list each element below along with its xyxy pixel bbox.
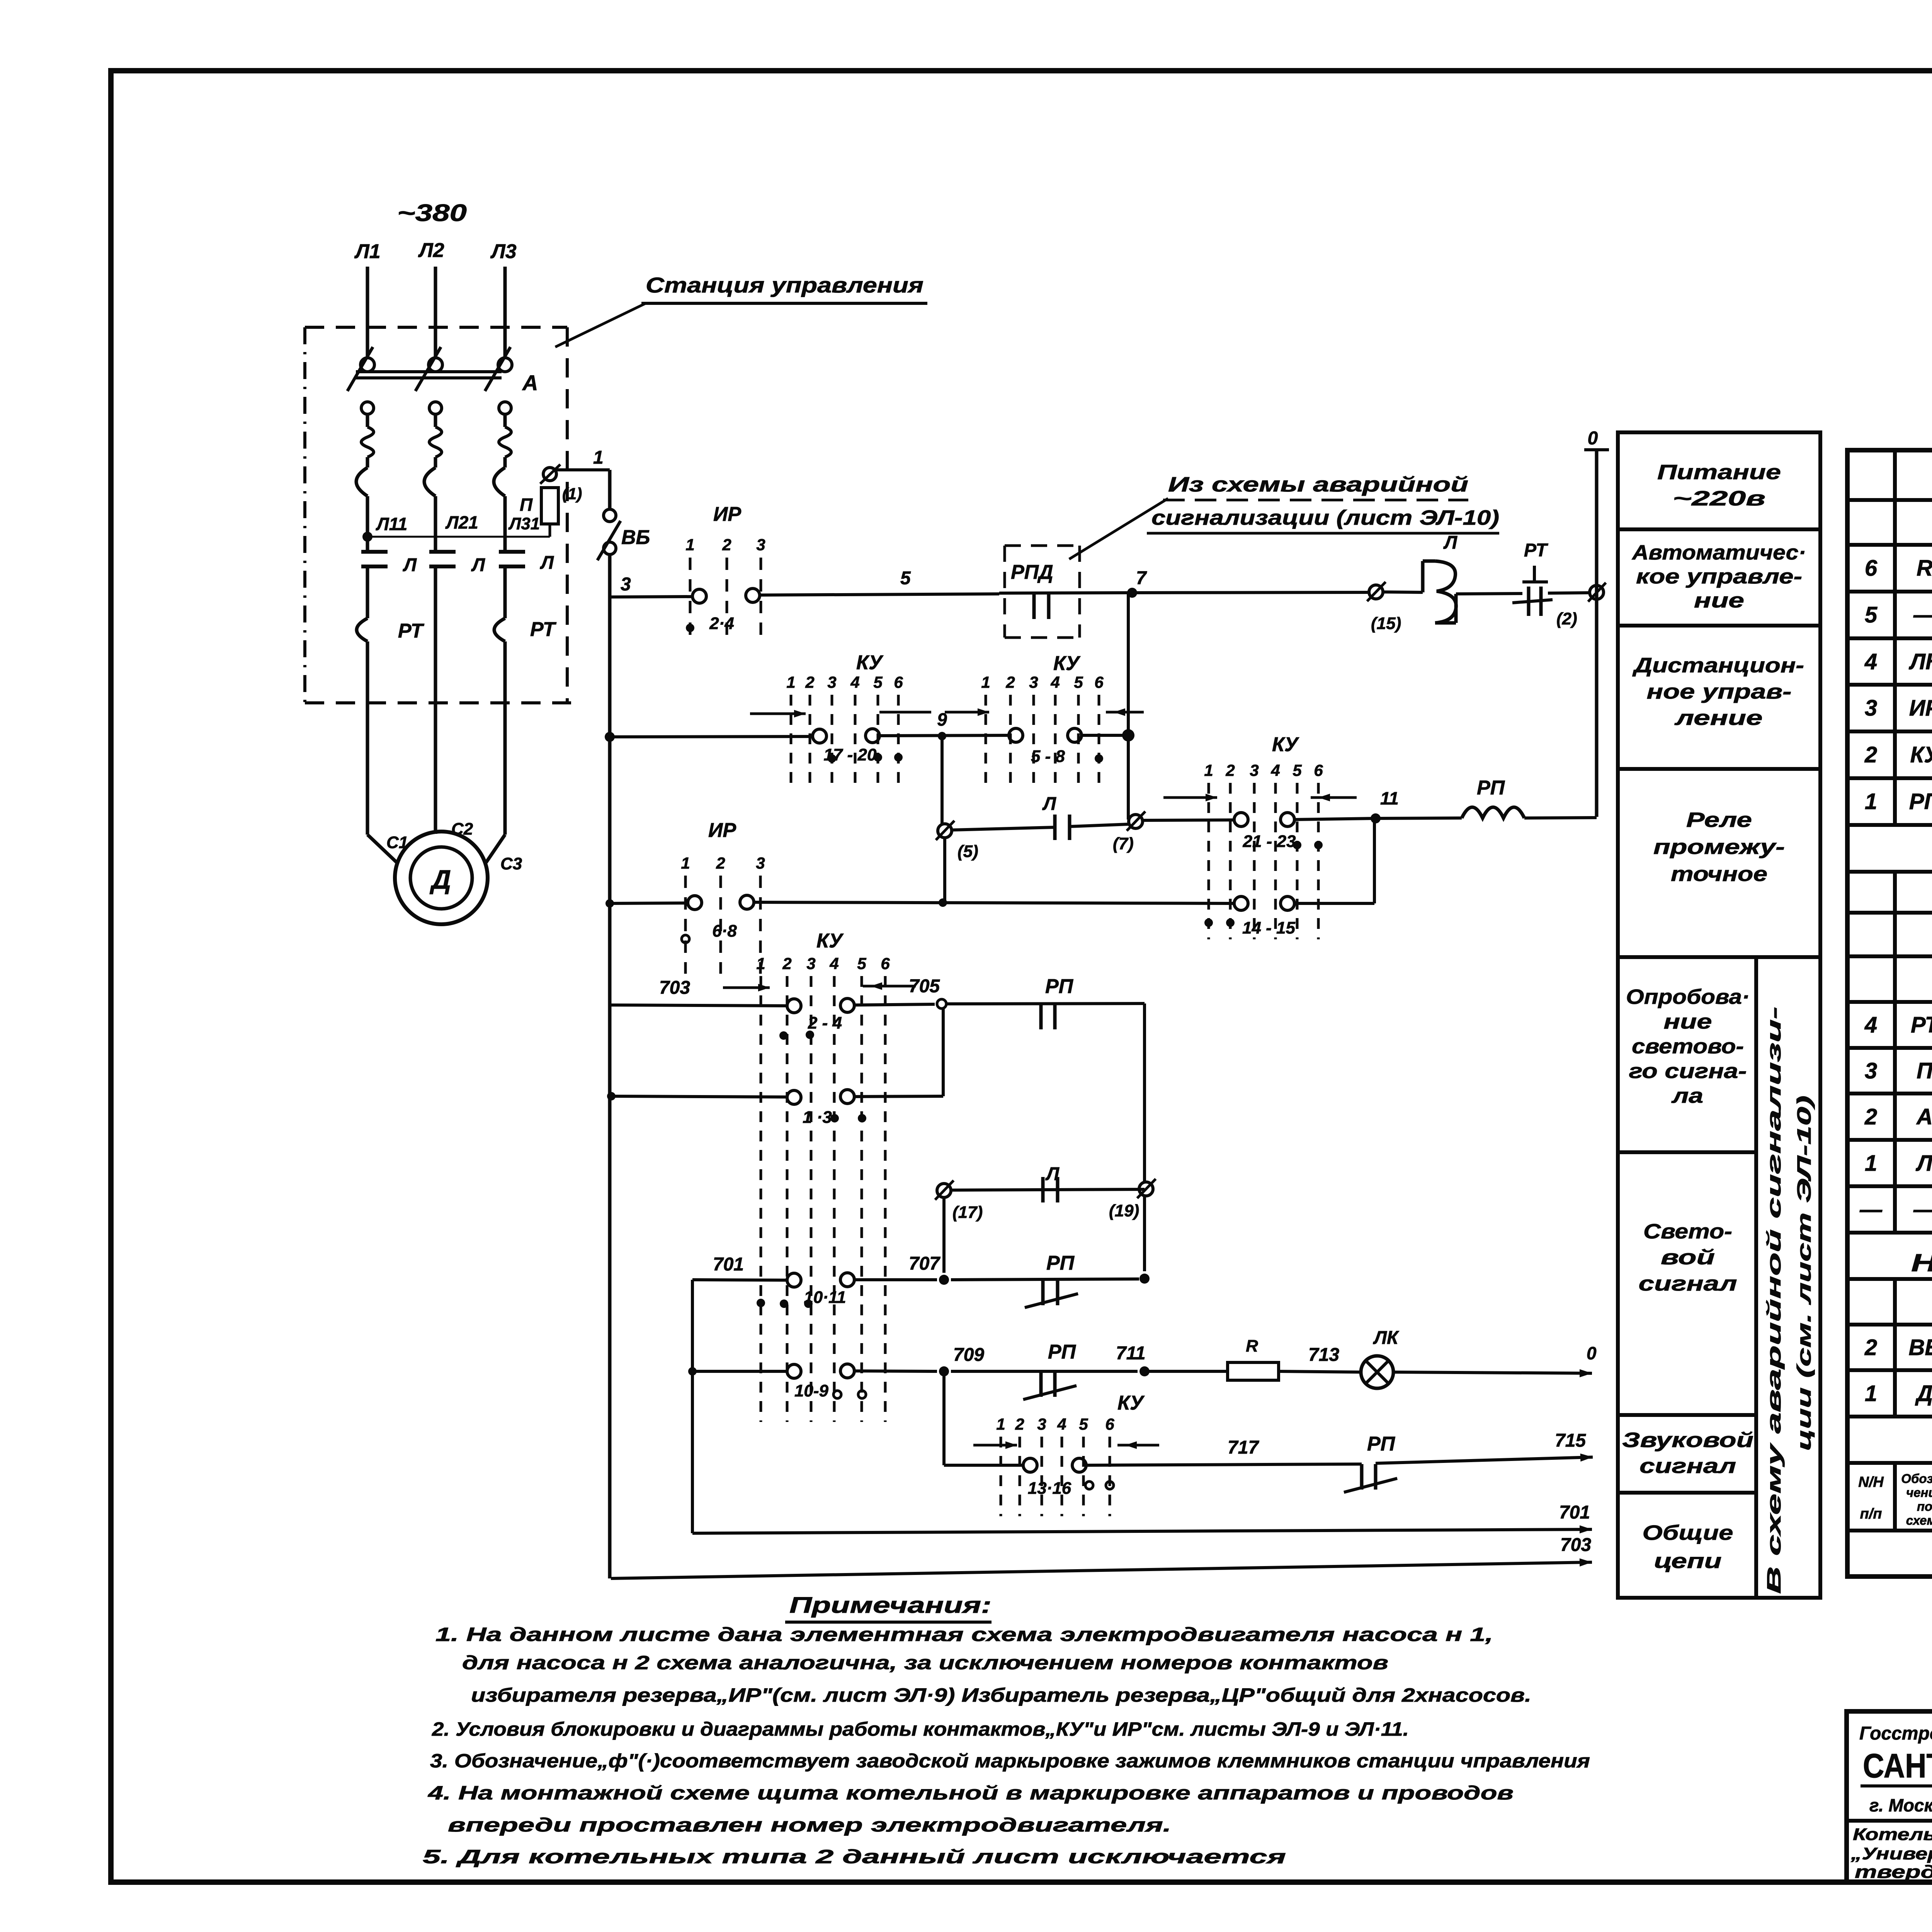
svg-text:КУ: КУ bbox=[1053, 652, 1081, 675]
svg-text:схеме: схеме bbox=[1906, 1513, 1932, 1527]
svg-text:5: 5 bbox=[1079, 1415, 1088, 1433]
svg-text:го сигна-: го сигна- bbox=[1629, 1060, 1747, 1083]
svg-text:2: 2 bbox=[782, 954, 791, 973]
svg-text:5: 5 bbox=[1865, 602, 1878, 628]
svg-text:А: А bbox=[1916, 1104, 1932, 1129]
svg-text:703: 703 bbox=[1560, 1535, 1591, 1555]
svg-text:твердом топливе: твердом топливе bbox=[1855, 1862, 1932, 1882]
svg-text:светово-: светово- bbox=[1632, 1035, 1744, 1058]
svg-text:КУ: КУ bbox=[1910, 742, 1932, 767]
svg-text:(5): (5) bbox=[957, 842, 978, 861]
svg-text:ное управ-: ное управ- bbox=[1647, 680, 1792, 703]
svg-text:Л: Л bbox=[403, 555, 417, 575]
svg-text:5 - 8: 5 - 8 bbox=[1031, 747, 1065, 766]
svg-text:Л: Л bbox=[1915, 1151, 1932, 1176]
svg-text:6: 6 bbox=[894, 673, 903, 691]
svg-text:—: — bbox=[1913, 602, 1932, 628]
svg-text:РТ: РТ bbox=[1524, 540, 1548, 561]
svg-text:2: 2 bbox=[1864, 742, 1877, 767]
svg-text:4: 4 bbox=[1864, 1012, 1877, 1037]
svg-text:по: по bbox=[1917, 1499, 1932, 1514]
svg-text:Свето-: Свето- bbox=[1643, 1220, 1732, 1243]
svg-text:2: 2 bbox=[716, 854, 725, 872]
svg-text:2: 2 bbox=[1015, 1415, 1024, 1433]
svg-text:4: 4 bbox=[829, 954, 838, 973]
svg-text:5. Для котельных типа 2 да: 5. Для котельных типа 2 данный лист искл… bbox=[423, 1846, 1286, 1867]
svg-text:4. На монтажной схеме щита: 4. На монтажной схеме щита котельной в м… bbox=[428, 1782, 1514, 1804]
svg-text:~220в: ~220в bbox=[1673, 487, 1765, 510]
svg-text:14 - 15: 14 - 15 bbox=[1242, 918, 1296, 937]
svg-text:709: 709 bbox=[953, 1345, 984, 1365]
svg-text:—: — bbox=[1913, 1197, 1932, 1222]
svg-text:САНТЕХПРОЕКТ: САНТЕХПРОЕКТ bbox=[1863, 1747, 1932, 1785]
svg-text:РП: РП bbox=[1909, 789, 1932, 814]
svg-text:1: 1 bbox=[685, 536, 694, 554]
svg-text:1: 1 bbox=[1204, 761, 1213, 779]
svg-text:(7): (7) bbox=[1113, 834, 1134, 853]
svg-text:РТ: РТ bbox=[530, 618, 557, 641]
svg-text:РТ: РТ bbox=[398, 620, 425, 642]
svg-text:1: 1 bbox=[1865, 789, 1877, 814]
svg-text:сигнализации (лист ЭЛ-10): сигнализации (лист ЭЛ-10) bbox=[1151, 506, 1499, 529]
svg-text:5: 5 bbox=[900, 568, 911, 588]
svg-text:711: 711 bbox=[1116, 1343, 1146, 1364]
svg-text:Л: Л bbox=[1042, 794, 1056, 814]
svg-text:(15): (15) bbox=[1371, 614, 1401, 633]
svg-text:11: 11 bbox=[1380, 788, 1399, 808]
svg-text:Питание: Питание bbox=[1657, 461, 1781, 484]
svg-text:3: 3 bbox=[1250, 761, 1259, 779]
svg-text:Л2: Л2 bbox=[418, 239, 444, 262]
svg-text:А: А bbox=[522, 371, 538, 395]
svg-text:3: 3 bbox=[827, 673, 836, 691]
svg-text:П: П bbox=[1917, 1058, 1932, 1083]
svg-text:3: 3 bbox=[621, 574, 631, 595]
svg-text:Л: Л bbox=[540, 553, 554, 573]
svg-text:С3: С3 bbox=[500, 854, 522, 873]
svg-text:РТ: РТ bbox=[1911, 1012, 1932, 1037]
svg-text:Л31: Л31 bbox=[508, 514, 540, 533]
svg-text:6: 6 bbox=[881, 954, 890, 973]
svg-text:1: 1 bbox=[1865, 1381, 1877, 1406]
svg-text:2. Условия блокировки и диаг: 2. Условия блокировки и диаграммы работы… bbox=[432, 1718, 1409, 1740]
svg-text:1: 1 bbox=[593, 447, 604, 468]
svg-text:сигнал: сигнал bbox=[1639, 1454, 1736, 1478]
svg-text:N/Н: N/Н bbox=[1858, 1474, 1884, 1490]
svg-text:1. На данном листе дана: 1. На данном листе дана элементная схема… bbox=[435, 1624, 1493, 1645]
svg-text:3. Обозначение„ф"(·)соответст: 3. Обозначение„ф"(·)соответствует заводс… bbox=[430, 1750, 1590, 1772]
svg-text:С2: С2 bbox=[451, 820, 473, 838]
svg-text:„Универсал- 6М” на: „Универсал- 6М” на bbox=[1850, 1844, 1932, 1863]
svg-text:РП: РП bbox=[1048, 1341, 1077, 1363]
svg-text:Станция управления: Станция управления bbox=[646, 273, 923, 297]
svg-text:1: 1 bbox=[981, 673, 990, 691]
svg-text:Обозна: Обозна bbox=[1901, 1471, 1932, 1486]
svg-text:1: 1 bbox=[786, 673, 795, 691]
svg-text:ла: ла bbox=[1671, 1084, 1703, 1107]
svg-text:707: 707 bbox=[909, 1253, 940, 1274]
svg-text:4: 4 bbox=[1057, 1415, 1066, 1433]
svg-text:R: R bbox=[1917, 556, 1932, 581]
svg-text:0: 0 bbox=[1587, 1343, 1597, 1363]
svg-text:0: 0 bbox=[1588, 428, 1598, 449]
svg-text:2: 2 bbox=[1225, 761, 1235, 779]
svg-text:3: 3 bbox=[1037, 1415, 1046, 1433]
svg-text:701: 701 bbox=[713, 1254, 744, 1275]
svg-text:3: 3 bbox=[1865, 1058, 1877, 1083]
svg-text:(19): (19) bbox=[1109, 1201, 1139, 1220]
svg-text:6: 6 bbox=[1094, 673, 1104, 691]
svg-text:2: 2 bbox=[1005, 673, 1015, 691]
svg-text:6·8: 6·8 bbox=[712, 922, 737, 940]
svg-text:10-9: 10-9 bbox=[794, 1381, 829, 1400]
svg-text:4: 4 bbox=[1864, 649, 1877, 674]
svg-text:Котельная с 4котлами: Котельная с 4котлами bbox=[1853, 1825, 1932, 1844]
svg-text:Госстрой: Госстрой bbox=[1859, 1723, 1932, 1744]
svg-text:Д: Д bbox=[1915, 1381, 1932, 1406]
svg-text:ление: ление bbox=[1674, 706, 1762, 730]
svg-text:1: 1 bbox=[756, 954, 765, 973]
svg-text:~380: ~380 bbox=[397, 200, 467, 226]
svg-text:Д: Д bbox=[430, 864, 451, 895]
svg-text:Л21: Л21 bbox=[445, 512, 478, 532]
svg-text:П: П bbox=[520, 495, 533, 515]
svg-text:Общие: Общие bbox=[1643, 1521, 1733, 1544]
svg-text:ВБ: ВБ bbox=[621, 526, 650, 549]
svg-text:1: 1 bbox=[996, 1415, 1005, 1433]
svg-text:2: 2 bbox=[1864, 1335, 1877, 1360]
svg-text:Л3: Л3 bbox=[490, 240, 517, 263]
svg-text:3: 3 bbox=[806, 954, 815, 973]
svg-text:ИР: ИР bbox=[1909, 696, 1932, 721]
svg-text:4: 4 bbox=[850, 673, 859, 691]
svg-text:вой: вой bbox=[1661, 1246, 1715, 1269]
svg-text:6: 6 bbox=[1865, 556, 1878, 581]
svg-text:7: 7 bbox=[1136, 568, 1147, 588]
svg-text:РПД: РПД bbox=[1011, 561, 1053, 583]
svg-text:1: 1 bbox=[1865, 1151, 1877, 1176]
svg-text:(2): (2) bbox=[1556, 609, 1577, 628]
svg-text:Л: Л bbox=[1443, 532, 1458, 553]
svg-text:715: 715 bbox=[1555, 1430, 1586, 1451]
svg-text:КУ: КУ bbox=[1272, 733, 1299, 756]
svg-text:1 ·3: 1 ·3 bbox=[803, 1108, 832, 1127]
svg-text:чение: чение bbox=[1906, 1485, 1932, 1500]
svg-text:ИР: ИР bbox=[713, 503, 741, 526]
svg-text:КУ: КУ bbox=[816, 930, 844, 952]
svg-text:РП: РП bbox=[1477, 777, 1505, 799]
svg-text:5: 5 bbox=[857, 954, 866, 973]
svg-text:избирателя резерва„ИР"(см. ли: избирателя резерва„ИР"(см. лист ЭЛ·9) Из… bbox=[471, 1684, 1531, 1706]
svg-text:РП: РП bbox=[1046, 1252, 1075, 1274]
svg-text:5: 5 bbox=[1293, 761, 1302, 779]
svg-text:для насоса н 2 схема ана: для насоса н 2 схема аналогична, за искл… bbox=[462, 1652, 1388, 1673]
svg-text:сигнал: сигнал bbox=[1639, 1272, 1737, 1295]
svg-text:РП: РП bbox=[1045, 975, 1074, 998]
svg-text:п/п: п/п bbox=[1860, 1506, 1882, 1522]
svg-text:На щите станции управления: На щите станции управления ЩСУ bbox=[1911, 1249, 1932, 1277]
svg-text:ЛК: ЛК bbox=[1373, 1328, 1400, 1348]
svg-text:3: 3 bbox=[1865, 696, 1877, 721]
svg-text:Примечания:: Примечания: bbox=[789, 1593, 992, 1618]
svg-text:4: 4 bbox=[1050, 673, 1060, 691]
svg-text:ЛК: ЛК bbox=[1908, 649, 1932, 674]
svg-text:713: 713 bbox=[1308, 1345, 1339, 1365]
svg-text:2: 2 bbox=[805, 673, 814, 691]
svg-text:5: 5 bbox=[873, 673, 883, 691]
svg-text:3: 3 bbox=[756, 854, 765, 872]
svg-text:2: 2 bbox=[722, 536, 731, 554]
svg-text:3: 3 bbox=[756, 536, 765, 554]
svg-text:4: 4 bbox=[1270, 761, 1280, 779]
svg-text:Из схемы аварийной: Из схемы аварийной bbox=[1168, 473, 1468, 496]
svg-text:(17): (17) bbox=[952, 1203, 983, 1222]
svg-text:2 - 4: 2 - 4 bbox=[808, 1014, 842, 1032]
svg-text:701: 701 bbox=[1559, 1502, 1590, 1523]
svg-text:Реле: Реле bbox=[1686, 808, 1752, 832]
svg-text:703: 703 bbox=[659, 978, 690, 998]
svg-text:Автоматичес·: Автоматичес· bbox=[1631, 541, 1806, 564]
svg-text:R: R bbox=[1246, 1337, 1258, 1355]
svg-text:5: 5 bbox=[1074, 673, 1083, 691]
svg-text:3: 3 bbox=[1029, 673, 1038, 691]
svg-text:—: — bbox=[1859, 1197, 1883, 1222]
svg-text:С1: С1 bbox=[386, 833, 408, 852]
svg-text:2: 2 bbox=[1864, 1104, 1877, 1129]
svg-text:цепи: цепи bbox=[1654, 1549, 1722, 1573]
svg-text:ИР: ИР bbox=[708, 819, 736, 842]
svg-text:717: 717 bbox=[1228, 1437, 1259, 1458]
svg-text:Л1: Л1 bbox=[354, 240, 381, 263]
svg-text:КУ: КУ bbox=[856, 651, 884, 674]
svg-text:ции (см. лист ЭЛ-10): ции (см. лист ЭЛ-10) bbox=[1793, 1095, 1815, 1451]
svg-text:21 - 23: 21 - 23 bbox=[1243, 832, 1296, 851]
svg-text:2·4: 2·4 bbox=[709, 614, 734, 633]
svg-text:Дистанцион-: Дистанцион- bbox=[1632, 654, 1804, 677]
svg-text:ние: ние bbox=[1694, 589, 1744, 612]
svg-text:Звуковой: Звуковой bbox=[1622, 1429, 1753, 1452]
svg-text:1: 1 bbox=[681, 854, 690, 872]
svg-text:РП: РП bbox=[1367, 1433, 1396, 1455]
svg-text:6: 6 bbox=[1314, 761, 1323, 779]
svg-text:промежу-: промежу- bbox=[1653, 835, 1785, 859]
svg-text:13·16: 13·16 bbox=[1028, 1479, 1071, 1498]
svg-text:г. Москва: г. Москва bbox=[1869, 1795, 1932, 1815]
svg-text:ВБ: ВБ bbox=[1909, 1335, 1932, 1360]
svg-text:впереди проставлен номер эл: впереди проставлен номер электродвигател… bbox=[448, 1814, 1171, 1836]
svg-text:Л: Л bbox=[471, 555, 485, 575]
svg-text:Л11: Л11 bbox=[376, 514, 407, 534]
svg-text:ние: ние bbox=[1664, 1010, 1712, 1033]
svg-text:КУ: КУ bbox=[1117, 1392, 1145, 1414]
svg-text:В схему аварийной сигнализи-: В схему аварийной сигнализи- bbox=[1763, 1007, 1785, 1594]
svg-text:кое управле-: кое управле- bbox=[1636, 565, 1802, 588]
svg-text:6: 6 bbox=[1105, 1415, 1114, 1433]
svg-text:(1): (1) bbox=[562, 485, 582, 503]
svg-text:Опробова·: Опробова· bbox=[1626, 985, 1750, 1009]
svg-text:точное: точное bbox=[1671, 862, 1767, 886]
